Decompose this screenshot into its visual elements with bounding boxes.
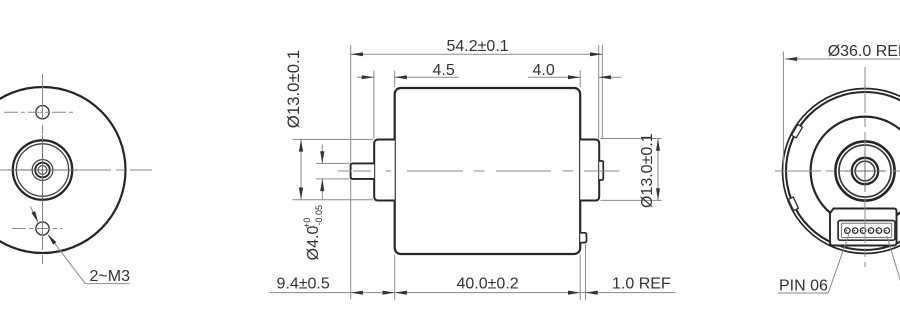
svg-text:54.2±0.1: 54.2±0.1 (447, 38, 509, 55)
svg-text:+0: +0 (302, 218, 312, 228)
svg-text:Ø13.0±0.1: Ø13.0±0.1 (284, 50, 303, 128)
svg-text:Ø4.0: Ø4.0 (305, 226, 322, 261)
svg-text:-0.05: -0.05 (314, 205, 324, 226)
svg-text:4.0: 4.0 (533, 62, 555, 79)
svg-text:Ø36.0 REF: Ø36.0 REF (828, 43, 900, 60)
svg-text:2~M3: 2~M3 (90, 268, 131, 285)
svg-text:9.4±0.5: 9.4±0.5 (277, 276, 330, 293)
svg-text:4.5: 4.5 (433, 62, 455, 79)
svg-text:PIN 06: PIN 06 (779, 278, 828, 295)
svg-text:40.0±0.2: 40.0±0.2 (457, 276, 519, 293)
svg-text:1.0 REF: 1.0 REF (612, 276, 671, 293)
svg-text:Ø13.0±0.1: Ø13.0±0.1 (639, 133, 656, 208)
